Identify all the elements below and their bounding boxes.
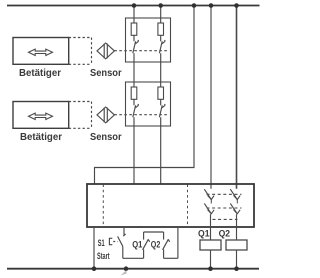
svg-text:Q2: Q2 — [219, 229, 231, 240]
svg-text:Betätiger: Betätiger — [20, 132, 62, 143]
svg-text:Q1: Q1 — [198, 229, 210, 240]
svg-text:Sensor: Sensor — [90, 132, 122, 143]
svg-text:Q2: Q2 — [151, 240, 161, 250]
svg-text:Q1: Q1 — [132, 240, 142, 250]
svg-text:Start: Start — [97, 251, 110, 261]
svg-text:Sensor: Sensor — [90, 68, 122, 79]
svg-text:Betätiger: Betätiger — [19, 68, 61, 79]
svg-text:S1: S1 — [98, 238, 105, 248]
